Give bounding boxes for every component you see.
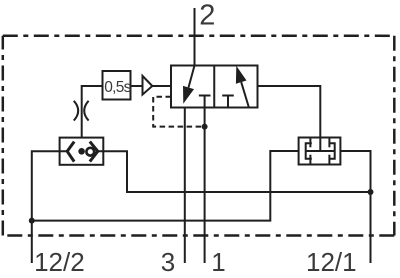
junction dot 12/1 [368,189,374,195]
svg-text:12/1: 12/1 [306,247,357,277]
shuttle left seat [67,142,74,162]
latch housing stop bottom left [309,155,311,165]
svg-text:1: 1 [211,247,225,277]
port 2 line [194,8,196,66]
svg-text:3: 3 [161,247,175,277]
svg-text:2: 2 [199,0,215,32]
timer box [103,71,131,100]
shuttle valve body [60,138,104,165]
valve U1 3/2-way body [171,66,258,108]
port 1 line [204,108,206,264]
latch housing stop top left [309,138,311,148]
shuttle stem junction [78,148,85,155]
junction dot 12/2 [29,218,35,224]
shuttle right seat [90,142,98,162]
junction dot pilot tap on port 1 [202,124,208,130]
svg-text:12/2: 12/2 [34,247,85,277]
port 12/2 line [31,221,33,263]
wire latch left port to 12/2 net [32,151,299,221]
enclosure border (dash-dot boundary) [3,36,395,236]
pilot supply dashed line [153,97,204,127]
latch top stem [319,138,321,152]
restrictor (throttle arcs) [74,101,89,121]
svg-text:0,5s: 0,5s [104,79,131,96]
valve right cell blocked port 3 symbol [222,96,234,108]
port 12/1 line [370,192,372,263]
wire timer to pilot triangle [131,85,143,87]
wire shuttle right port to 12/1 junction [98,151,371,192]
pilot triangle [143,76,153,95]
valve left cell flow arrow 2-3 [183,66,195,104]
latch housing stop top right [328,138,330,148]
latch right piston [329,143,335,158]
wire corner down to shuttle valve [81,85,83,138]
latch housing stop bottom right [328,155,330,165]
valve left cell blocked port 1 symbol [199,96,211,108]
wire latch right port to 12/1 junction [340,151,370,192]
wire valve right port to latch top [258,86,321,138]
wire shuttle left port to 12/2 corner [32,151,67,220]
latch element body [299,138,341,165]
valve right cell flow arrow 1-2 [236,66,249,108]
latch central rod [306,150,335,152]
latch left piston [306,143,312,158]
shuttle ball [86,148,94,156]
port 3 line [184,108,186,264]
wire corner to timer [82,85,103,87]
wire triangle to valve [152,85,171,87]
